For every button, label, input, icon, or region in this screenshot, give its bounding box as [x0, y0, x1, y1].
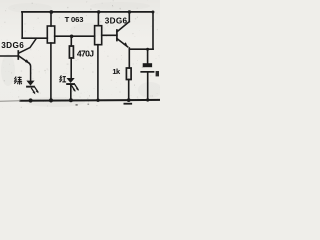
node gnd LED2 — [69, 98, 73, 102]
transistor Q2 collector — [117, 22, 129, 32]
node mid C1 tee — [70, 35, 74, 39]
transistor Q1 emitter — [19, 56, 30, 64]
wire C1 to LED2 — [70, 58, 72, 78]
node gnd R2 — [96, 99, 99, 102]
node rail-R2 — [97, 10, 100, 13]
transistor Q1 bar — [17, 51, 19, 59]
transistor Q1 — [0, 38, 36, 81]
clipped mark right edge — [156, 71, 159, 76]
capacitor C2 top plate — [143, 63, 152, 67]
node rail right corner — [151, 11, 154, 14]
wire LED2 to ground rail — [70, 86, 72, 101]
wire left vertical from top rail — [21, 12, 23, 38]
label green char (绿) — [14, 77, 22, 85]
wire ground rail — [20, 99, 160, 102]
node C2 tee — [146, 48, 149, 51]
resistor R1 top stub — [50, 12, 52, 26]
wire R2 bottom to ground rail — [97, 45, 99, 100]
wire C2 bottom to ground rail — [147, 73, 149, 100]
node gnd R3 — [127, 98, 131, 102]
wire mid horizontal R1 to R2 — [55, 35, 95, 37]
node rail-R1 — [49, 10, 53, 14]
node gnd C2 — [146, 98, 149, 101]
wire cap C1 drop — [70, 36, 72, 46]
node gnd R1 — [49, 98, 53, 102]
svg-text:3DG6: 3DG6 — [105, 17, 128, 26]
ground stub mark below rail — [124, 103, 133, 105]
wire R1 bottom to ground rail — [50, 43, 52, 100]
LED D2 red: triangle — [67, 78, 75, 83]
paper background — [0, 0, 160, 110]
stain specks below rail — [76, 104, 78, 105]
node gnd LED1 — [29, 98, 33, 102]
resistor R3 1k body — [126, 68, 131, 80]
wire Q2 base from R2 — [102, 34, 117, 36]
wire emitter node to right rail — [129, 48, 153, 50]
LED D1 green: triangle — [26, 81, 34, 86]
LED D1 cathode bar — [26, 86, 35, 88]
transistor Q1 emitter arrowhead — [25, 59, 30, 64]
LED D2 cathode bar — [66, 83, 75, 85]
node rail-Q2C — [128, 10, 131, 13]
wire Q2 collector to rail — [128, 12, 130, 22]
wire Q1 base from left edge — [0, 55, 18, 57]
junction dots — [29, 10, 155, 103]
LED D2 arrows — [71, 84, 78, 91]
svg-text:T 063: T 063 — [65, 15, 84, 24]
wire faint ground rail left stub — [0, 100, 20, 102]
wire top rail — [22, 11, 153, 13]
scan speckle — [3, 0, 159, 108]
transistor Q2 emitter arrowhead — [124, 42, 128, 47]
resistor R2 top stub — [97, 12, 99, 26]
wire Q2 emitter node down — [128, 48, 130, 68]
LED D1 arrows — [31, 87, 38, 94]
capacitor C1 470J body — [69, 46, 73, 58]
resistor R1 body — [47, 26, 54, 43]
wire R3 to ground rail — [128, 80, 130, 101]
svg-text:3DG6: 3DG6 — [1, 41, 24, 50]
transistor Q1 collector — [19, 38, 37, 53]
label red char (红) — [60, 75, 67, 82]
svg-text:470J: 470J — [77, 49, 94, 59]
wire C2 drop — [147, 49, 149, 63]
transistor Q2 emitter — [117, 39, 128, 47]
wire horizontal to R1 left — [22, 37, 47, 39]
capacitor C2 bottom plate — [140, 71, 154, 73]
transistor Q2 bar — [116, 30, 118, 41]
wire Q1 emitter down to LED1 — [29, 63, 30, 81]
wire right rail — [152, 12, 154, 49]
resistor R2 body — [95, 26, 102, 45]
